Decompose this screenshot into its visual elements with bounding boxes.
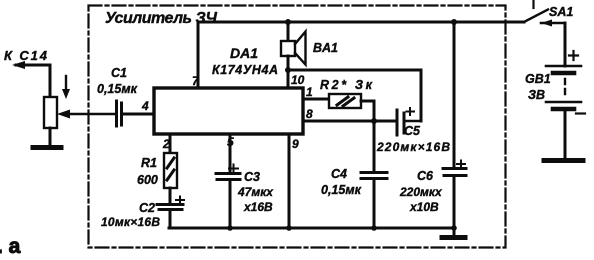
wire: C6 to bottom rail and chassis [453,177,456,236]
wire: top rail to speaker [287,22,290,41]
wire: battery negative to chassis [564,109,567,159]
svg-text:х10В: х10В [409,200,439,214]
pin 5 label [227,135,234,149]
C3 plus sign [229,165,238,173]
svg-text:R1: R1 [141,156,157,170]
svg-text:8: 8 [306,107,313,121]
svg-text:10: 10 [291,73,305,87]
pin 2 label [162,137,170,151]
node: pin8/R2/C4/C5 junction [371,118,377,124]
svg-text:4: 4 [141,99,149,113]
capacitor C6 (polarized) [443,169,466,176]
potentiometer wiper arrow [68,113,115,116]
pin 9 label [292,137,299,151]
switch SA1 tick [532,0,534,8]
svg-text:BA1: BA1 [313,41,338,55]
wire: pin 2 to R1 [169,134,172,153]
label C1 0,15mk [97,66,138,96]
potentiometer (volume control) [44,97,57,128]
svg-text:Усилитель ЗЧ: Усилитель ЗЧ [105,10,218,27]
svg-text:SA1: SA1 [549,5,573,19]
svg-text:1: 1 [306,85,313,99]
label R2* 3k [320,78,373,92]
adjustment arrow above wiper [65,76,67,90]
node: top rail / C6 branch junction [451,19,457,25]
pin 10 label [291,73,305,87]
label DA1 [212,45,278,77]
resistor R2 [329,94,361,108]
op-amp IC DA1 K174UN4A body [154,88,303,134]
battery GB1 cell 2 [546,101,581,104]
battery minus sign [576,112,585,114]
wire: top supply rail [198,21,524,24]
battery dashes (more cells) [564,79,566,94]
capacitor C3 (polarized) [216,174,240,180]
svg-text:220мк×16В: 220мк×16В [376,140,450,154]
svg-text:DA1: DA1 [230,45,258,61]
speaker BA1 [281,32,306,65]
wire: pot bottom to ground [49,128,52,145]
wire: pin 8 to C5 [303,120,395,123]
pin 8 label [306,107,313,121]
C6 plus sign [457,161,465,168]
resistor R1 [164,153,177,188]
label C2 10mk x 16V [101,201,160,229]
wire: R2 right to pin 8 node [361,101,374,121]
wire: speaker node to C5 right plate (feedback loop) [288,70,421,121]
block title: Усилитель ЗЧ [105,10,218,27]
svg-text:9: 9 [292,137,299,151]
wire: C1 to pin 4 [122,113,154,116]
wire: speaker to pin 10 [287,56,290,88]
ground: chassis bar below battery [544,158,583,163]
capacitor C1 [117,101,122,126]
capacitor C4 [361,173,387,179]
wire: C6 branch from top rail [453,22,456,167]
node: C3 bottom junction [227,225,233,231]
svg-text:С1: С1 [111,66,127,80]
label К С14 [4,48,48,63]
battery GB1 cell 1 [546,65,581,68]
svg-text:ЗВ: ЗВ [528,88,545,102]
svg-text:К174УН4А: К174УН4А [212,63,278,77]
label C6 [399,169,443,214]
svg-text:К С14: К С14 [4,48,48,63]
wire: pin 1 to R2 [303,98,329,101]
node: pin 9 bottom junction [286,225,292,231]
svg-text:С2: С2 [139,201,155,215]
label BA1 [313,41,338,55]
label R1 600 [137,156,158,187]
ground: chassis bar below potentiometer [33,145,61,150]
wire: bottom common rail [169,227,454,230]
label C4 [321,167,362,197]
svg-text:С6: С6 [417,169,434,183]
svg-text:GB1: GB1 [525,72,551,86]
wire: switch to battery [564,23,567,66]
amplifier block boundary (dash-dot frame) [89,6,506,248]
C5 plus sign [407,108,415,115]
svg-text:0,15мк: 0,15мк [97,82,138,96]
wire: R1 to C2 [169,188,172,203]
switch SA1 lever [524,10,548,23]
label C3 [237,170,274,214]
svg-text:5: 5 [227,135,234,149]
switch SA1 right contact [541,22,565,25]
svg-text:220мкх: 220мкх [399,185,443,199]
pin 4 label [141,99,149,113]
ground: chassis bar below C6 [442,235,465,240]
capacitor C2 (polarized) [157,205,183,210]
svg-text:2: 2 [162,137,170,151]
label C5 [376,124,450,154]
svg-text:. а: . а [0,235,21,258]
svg-text:0,15мк: 0,15мк [321,183,362,197]
caption fragment [0,235,21,258]
node: bottom rail end junction [451,225,457,231]
label SA1 [549,5,573,19]
node: top rail / speaker junction [285,19,291,25]
label GB1 3V [525,72,551,102]
svg-text:С3: С3 [244,170,260,184]
wire: C3 to bottom rail [229,181,232,228]
svg-text:10мк×16В: 10мк×16В [101,215,160,229]
C2 plus sign [176,197,184,204]
pin 7 label [192,74,200,88]
node: C4 bottom junction [371,225,377,231]
wire: pin 7 to top rail [197,22,200,88]
svg-text:47мкх: 47мкх [237,185,274,199]
pin 1 label [306,85,313,99]
battery GB1 plus sign [569,51,578,60]
svg-text:С4: С4 [331,167,347,181]
node: pin 10 / C5 return junction [285,67,291,73]
capacitor C4 branch wire [373,121,376,228]
svg-text:С5: С5 [404,124,421,138]
wire: C2 to bottom rail [169,211,172,228]
svg-text:600: 600 [137,173,158,187]
input arrow: к С14 [16,65,50,97]
svg-text:х16В: х16В [243,200,273,214]
capacitor C5 (polarized) [397,110,404,135]
wire: pin 9 to bottom rail [288,134,291,228]
wire: pin 5 to C3 [229,134,232,171]
